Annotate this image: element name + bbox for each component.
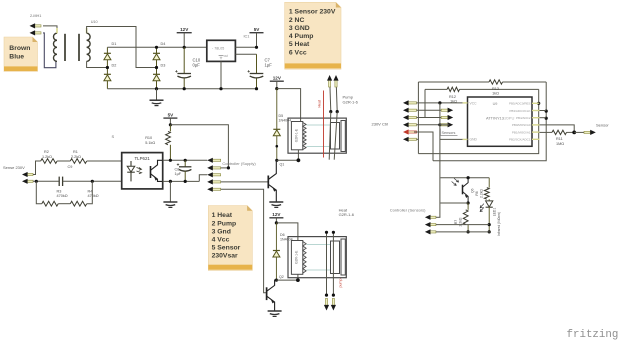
wire R12 down to pin3 row [424, 89, 426, 117]
svg-text:0µF: 0µF [193, 63, 201, 68]
svg-text:C8: C8 [175, 168, 180, 172]
node sense bottom right [91, 180, 94, 183]
diode D1 [106, 47, 108, 53]
node DC- at D3 [155, 87, 158, 90]
node C8 bottom [184, 180, 187, 183]
transformer TR1 [53, 28, 90, 61]
diode D2 [106, 68, 108, 75]
resistor R3 [42, 201, 58, 206]
wire 12V to heat coil top [276, 223, 298, 241]
ground below bridge [156, 89, 158, 101]
capacitor C9 [58, 177, 60, 186]
ground TLP emitter [169, 181, 171, 202]
svg-text:Q2: Q2 [279, 275, 284, 279]
svg-text:IC1: IC1 [244, 35, 250, 39]
node sense bottom left [35, 180, 38, 183]
svg-text:Q6: Q6 [471, 188, 475, 193]
wire sensors pin3 from V3 [440, 124, 449, 126]
wire pin3 bottom line [436, 231, 491, 233]
svg-text:pump: pump [339, 279, 343, 288]
wire 12V to relay coil top [277, 89, 301, 122]
connector Sense pin 1 [27, 173, 33, 175]
svg-text:Heat: Heat [318, 100, 322, 107]
wire DC+ rail [107, 46, 206, 48]
wire row4 to sensor output node [540, 125, 575, 132]
svg-text:R3: R3 [57, 190, 62, 194]
connector Sensors pins [441, 109, 448, 111]
resistor R11 [540, 131, 553, 133]
svg-text:1MΩ: 1MΩ [556, 142, 564, 146]
connector heat out 2 [332, 232, 334, 295]
transistor Q2 [267, 275, 284, 311]
wire R4 up to node [87, 181, 93, 203]
svg-text:12V: 12V [272, 212, 281, 217]
svg-text:2.2kΩ: 2.2kΩ [480, 189, 484, 198]
svg-text:1N4004: 1N4004 [280, 237, 293, 241]
svg-text:Sensors: Sensors [442, 131, 456, 135]
svg-text:TLP621: TLP621 [135, 156, 151, 161]
connector 230V ctrl pin5 (red) [408, 131, 416, 133]
wire secondary top to bridge AC2 [87, 27, 157, 68]
wire red pin5 down to line B [414, 132, 433, 161]
svg-text:R1: R1 [73, 150, 78, 154]
capacitor C10 [183, 47, 185, 73]
resistor R7 [467, 203, 469, 210]
wire IR top line [440, 177, 489, 179]
phototransistor Q6 [452, 178, 475, 203]
svg-text:3 GND: 3 GND [289, 25, 310, 32]
svg-text:G2R-1-6: G2R-1-6 [343, 99, 359, 104]
wire R1 to opto pin1 [87, 160, 122, 162]
sticky note Brown/Blue [4, 37, 38, 72]
svg-text:Blue: Blue [9, 54, 24, 61]
wire DC- rail [107, 88, 256, 90]
svg-text:PB5/ADC0/RES: PB5/ADC0/RES [509, 102, 531, 106]
power flag 12V (rectifier) [177, 32, 192, 34]
svg-text:1µF: 1µF [175, 172, 182, 176]
node AC1 junction [106, 66, 109, 69]
svg-text:R6: R6 [475, 191, 479, 195]
wire down to R3 [36, 181, 42, 203]
transistor Q1 [268, 160, 284, 202]
connector pump out 1 [330, 82, 331, 112]
diode D4 [156, 47, 158, 53]
svg-text:PB4/ADC2: PB4/ADC2 [516, 116, 531, 120]
connector heat out 1 [326, 232, 328, 295]
wire pin2 to 5V drop [221, 167, 229, 169]
svg-text:GND: GND [470, 138, 478, 142]
wire R2-R1 [57, 160, 70, 162]
node Q6 emitter [467, 201, 470, 204]
svg-text:D1: D1 [112, 42, 117, 46]
node 12V pump [275, 87, 278, 90]
svg-text:D4: D4 [161, 42, 166, 46]
svg-text:Infrared (940nm): Infrared (940nm) [497, 212, 501, 236]
svg-text:1kΩ: 1kΩ [492, 91, 499, 95]
wire pin1 from V3 [436, 216, 441, 218]
svg-text:2 NC: 2 NC [289, 17, 305, 24]
svg-text:Brown: Brown [9, 45, 30, 52]
svg-text:5.1kΩ: 5.1kΩ [145, 141, 155, 145]
connector J1 pin N (mains blue) [35, 32, 41, 34]
wire 5V over to controller supply [170, 125, 228, 168]
connector Controller Supply pin1 [212, 159, 220, 161]
wire red Heat through relay [323, 91, 325, 158]
node heat coil return [275, 279, 278, 282]
node sensor out [572, 131, 576, 135]
svg-text:12V: 12V [273, 75, 282, 80]
svg-text:R13: R13 [492, 87, 499, 91]
svg-text:470kΩ: 470kΩ [57, 194, 68, 198]
wire emitter up to conn pin3 [199, 175, 207, 182]
IC U9 ATTINY13 [463, 97, 540, 146]
capacitor C7 [256, 54, 258, 73]
svg-text:R10: R10 [145, 136, 152, 140]
svg-text:R4: R4 [88, 190, 93, 194]
connector ctrl sensors pin1 [430, 216, 436, 218]
wire pin4 to Q1 base [221, 181, 269, 183]
connector Controller Supply pin5 [212, 188, 220, 190]
svg-text:fritzing: fritzing [567, 329, 619, 341]
voltage regulator IC1 (78L05) [207, 40, 236, 61]
note pinout sensor connector [285, 2, 341, 69]
lower relay REL2 Heat G2R-1-E [288, 237, 346, 278]
diode D3 [156, 68, 158, 75]
wire C9 to opto pin2 [63, 180, 122, 182]
svg-text:U10: U10 [91, 20, 98, 24]
power flag 5V [250, 32, 264, 34]
svg-text:G2R-1-6: G2R-1-6 [339, 212, 355, 217]
svg-text:C9: C9 [68, 165, 73, 169]
svg-text:2 Pump: 2 Pump [212, 220, 237, 227]
svg-text:Sense 230V: Sense 230V [3, 165, 25, 170]
svg-text:1.2kΩ: 1.2kΩ [42, 155, 52, 159]
node relay coil return [275, 159, 278, 162]
capacitor C8 [184, 160, 186, 167]
power flag 12V (pump relay) [270, 80, 284, 82]
connector Controller Supply pin4 [212, 181, 220, 183]
connector Sensor output arrow [574, 131, 584, 133]
svg-text:4 Pump: 4 Pump [289, 33, 314, 40]
svg-text:1µF: 1µF [265, 63, 273, 68]
svg-text:PB2/SCK/ADC1: PB2/SCK/ADC1 [509, 138, 531, 142]
svg-text:1 Heat: 1 Heat [212, 212, 233, 219]
connector 230V ctrl pin4 [408, 124, 416, 126]
LED1 infrared [480, 199, 501, 236]
svg-text:12V: 12V [180, 27, 189, 32]
connector 230V ctrl pin1 [408, 102, 416, 104]
resistor R4 [70, 201, 86, 206]
wire collector line [163, 159, 208, 161]
note pinout controller connector [208, 206, 252, 271]
wire GND line to chip [440, 138, 463, 140]
node R10 bottom [169, 159, 172, 162]
wires chip right rows [538, 102, 541, 104]
svg-text:D2: D2 [112, 63, 117, 67]
svg-text:6 Vcc: 6 Vcc [289, 49, 307, 56]
wire mains N to primary bottom (blue) [43, 33, 56, 68]
ground Q1 emitter [269, 201, 283, 203]
svg-text:- 78L05: - 78L05 [212, 46, 224, 50]
wire sense bottom path [33, 180, 59, 182]
svg-text:5V: 5V [254, 27, 261, 32]
svg-text:R11: R11 [556, 137, 563, 141]
node R7 bottom [467, 230, 470, 233]
connector J1 pin L (mains brown) [35, 25, 41, 27]
svg-text:U9: U9 [493, 102, 498, 106]
svg-text:PB1/MISO/A1: PB1/MISO/A1 [512, 130, 531, 134]
svg-text:R7: R7 [454, 220, 458, 224]
wire secondary bottom to bridge AC1 [87, 61, 108, 67]
svg-text:D3: D3 [161, 63, 166, 67]
svg-text:470kΩ: 470kΩ [88, 194, 99, 198]
svg-text:G2R-1-E: G2R-1-E [295, 128, 299, 142]
resistor R13 with top line [418, 81, 489, 83]
upper relay REL1 Pump G2R-1-E [288, 118, 346, 153]
op-amp U1 TLP621 optocoupler [122, 153, 163, 189]
wire R3-R4 [58, 203, 70, 205]
svg-text:5 Heat: 5 Heat [289, 41, 310, 48]
wire pin4 row to sensors [417, 124, 450, 126]
wire coil bottom return [277, 150, 299, 161]
svg-text:PB0/MOSI/A0: PB0/MOSI/A0 [512, 123, 531, 127]
regulator ground pin [220, 61, 222, 88]
node AC2 junction [155, 66, 158, 69]
ground Q2 emitter [268, 310, 282, 312]
svg-text:S: S [112, 134, 115, 139]
svg-text:LED1: LED1 [492, 208, 496, 217]
connector Controller Supply pin3 [212, 174, 220, 176]
svg-text:2-MH1: 2-MH1 [30, 14, 41, 18]
svg-text:3 Gnd: 3 Gnd [212, 228, 231, 235]
connector Sense pin 2 [27, 180, 33, 182]
resistor R1 [70, 159, 86, 164]
svg-text:4 Vcc: 4 Vcc [212, 237, 230, 244]
node emitter gnd [169, 180, 172, 183]
wire sense top path [33, 161, 41, 175]
svg-text:out: out [224, 54, 229, 58]
svg-text:5V: 5V [168, 112, 175, 117]
svg-text:1N4004: 1N4004 [279, 118, 292, 122]
svg-text:-20PU: -20PU [503, 116, 514, 121]
svg-text:PB3/ADC3/CLK: PB3/ADC3/CLK [509, 109, 530, 113]
resistor R6 [488, 178, 490, 188]
node 12V heat [275, 221, 278, 224]
wire mains L to primary top [43, 26, 57, 33]
connector 230V ctrl pin2 [408, 109, 416, 111]
wire emitter to conn [440, 202, 468, 204]
wire heat coil bottom return [276, 275, 298, 281]
node LED bottom joins [488, 223, 491, 226]
svg-text:Controller (Supply): Controller (Supply) [222, 161, 256, 166]
wire pin6 row [417, 138, 419, 140]
connector Controller Supply pin2 [212, 167, 220, 169]
svg-text:Q1: Q1 [280, 162, 285, 166]
wire VCC line pin1 to chip [417, 102, 463, 104]
svg-text:2.2kΩ: 2.2kΩ [71, 155, 81, 159]
svg-text:230V Ctrl: 230V Ctrl [372, 121, 389, 126]
V3 lower segment already drawn; wire pin2 line [436, 224, 489, 226]
svg-text:1 Sensor 230V: 1 Sensor 230V [289, 9, 336, 16]
svg-text:R12: R12 [449, 95, 456, 99]
svg-text:G2R-1-E: G2R-1-E [295, 250, 299, 264]
node R10 top [169, 123, 172, 126]
line A bottom loop [418, 89, 538, 153]
svg-text:Sensor: Sensor [596, 123, 609, 128]
wire pin5 to Q2 base [221, 189, 267, 292]
connector 230V ctrl pin3 [408, 116, 416, 118]
svg-text:230Vsar: 230Vsar [212, 253, 238, 260]
power flag 5V (opto pullup) [163, 117, 177, 119]
wire R13 down to pin2 row [417, 82, 419, 154]
svg-text:5 Sensor: 5 Sensor [212, 245, 241, 252]
svg-text:Controller (Sensors): Controller (Sensors) [390, 207, 426, 212]
node 12V rail [183, 46, 186, 49]
resistor R2 [41, 159, 57, 164]
connector 230V ctrl pin6 [408, 138, 416, 140]
diode D6 (flyback) [275, 223, 277, 251]
connector ctrl sensors pin2 [430, 224, 436, 226]
wire emitter line [163, 180, 200, 182]
node DC+ at D4 [155, 46, 158, 49]
svg-text:R2: R2 [44, 150, 49, 154]
svg-text:ATTINY13: ATTINY13 [486, 116, 504, 121]
svg-text:VCC: VCC [470, 102, 478, 106]
node C8 top [184, 159, 187, 162]
diode D5 (flyback) [276, 89, 278, 130]
connector ctrl sensors pin3 [430, 231, 436, 233]
connector pump out 2 [336, 82, 337, 112]
line B bottom loop [433, 82, 546, 161]
resistor R10 [169, 125, 171, 132]
vertical V3 [439, 103, 441, 217]
power flag 12V (heat relay) [269, 217, 283, 219]
resistor R12 with line [425, 88, 447, 90]
regulator output wires [235, 46, 256, 48]
